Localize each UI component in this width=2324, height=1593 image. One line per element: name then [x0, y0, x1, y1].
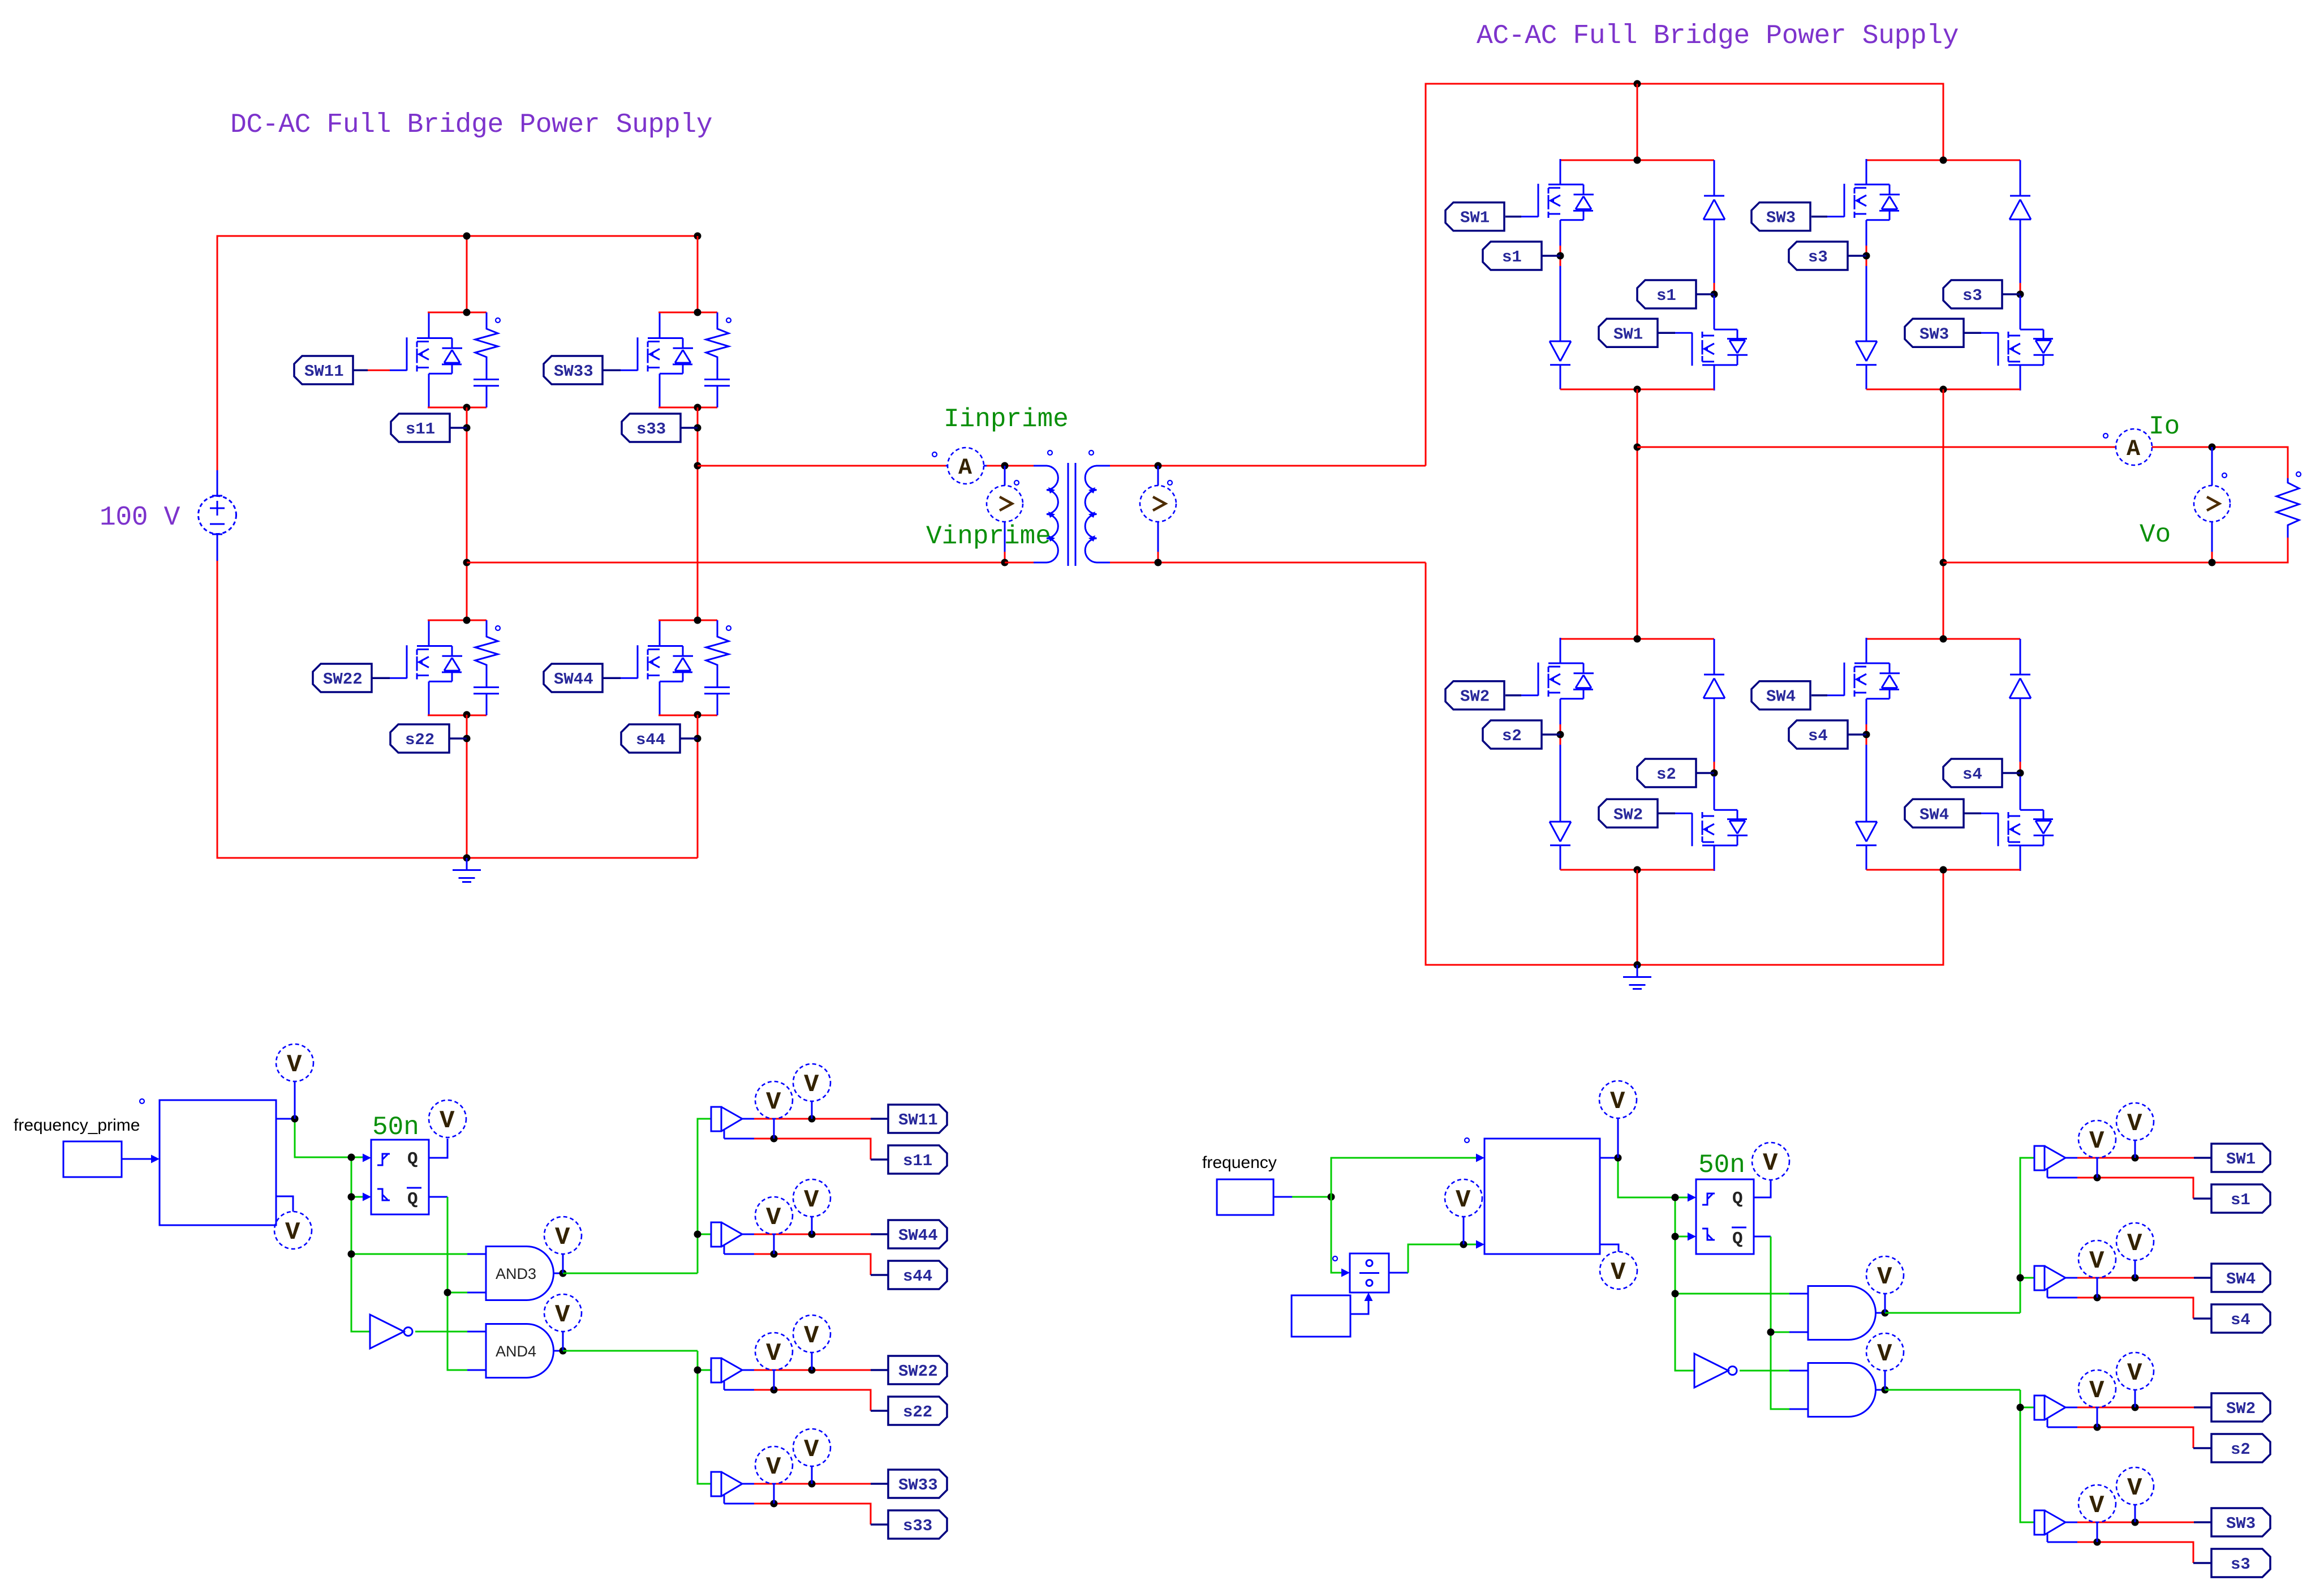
- svg-text:Q: Q: [407, 1149, 418, 1169]
- label Vinprime: [926, 522, 1051, 551]
- node Qbar and1 input: [1767, 1329, 1775, 1336]
- title AC-AC Full Bridge Power Supply: [1477, 21, 1959, 51]
- svg-text:frequency: frequency: [1202, 1153, 1277, 1172]
- wire left leg upper: [466, 236, 468, 312]
- svg-text:50n: 50n: [372, 1113, 419, 1142]
- wire cell S2 top rail: [1560, 638, 1714, 640]
- gate tag SW1 lower: [1599, 319, 1675, 347]
- voltmeter AND3: [544, 1217, 582, 1273]
- svg-text:SW2: SW2: [1460, 688, 1490, 706]
- node s4 line: [2094, 1294, 2101, 1302]
- node s22 line: [771, 1386, 778, 1394]
- svg-text:Vo: Vo: [2140, 520, 2171, 549]
- label frequency_prime: [14, 1116, 140, 1135]
- wire ff Qbar trunk prime: [429, 1197, 486, 1370]
- voltmeter ff Q: [1752, 1143, 1789, 1180]
- node s2 right junction: [1711, 770, 1718, 777]
- tag SW3 out: [2211, 1508, 2270, 1536]
- svg-text:Vinprime: Vinprime: [926, 522, 1051, 551]
- wire AND4 output to drivers: [563, 1351, 711, 1484]
- node A1 output: [1882, 1309, 1889, 1317]
- diode S4 left branch: [1856, 822, 1877, 870]
- node SW11 drain: [463, 309, 471, 316]
- gating block SW44: [711, 1222, 888, 1275]
- voltmeter generator top prime: [276, 1044, 313, 1119]
- node bottom bus center: [1634, 961, 1641, 969]
- tag s22: [390, 724, 467, 753]
- wire to generator input 1: [1331, 1154, 1484, 1197]
- node frequency split: [1328, 1193, 1335, 1201]
- node trunk and1 input: [1672, 1290, 1679, 1298]
- tag s22 out: [888, 1397, 947, 1425]
- node SW3 gate line: [2132, 1519, 2139, 1526]
- node mid rail left leg: [1634, 444, 1641, 451]
- label Vo: [2140, 520, 2171, 549]
- gate tag SW3 upper: [1751, 203, 1827, 231]
- node right leg load return: [1940, 559, 1947, 566]
- node s33 junction: [694, 424, 701, 432]
- snubber RC SW11: [428, 312, 500, 407]
- label 50n prime: [372, 1113, 419, 1142]
- triangle generator block: [1484, 1139, 1600, 1254]
- wire S4 left branch: [1866, 724, 1867, 822]
- node right leg / upper rail: [694, 462, 701, 470]
- wire S2 left branch: [1560, 724, 1561, 822]
- wire S3 right branch: [2020, 283, 2021, 302]
- node SW22 drain: [463, 617, 471, 624]
- node divider output probe: [1460, 1241, 1467, 1248]
- voltmeter SW4: [2116, 1223, 2154, 1278]
- diode S4 right branch: [2009, 639, 2031, 762]
- wire S3 left branch: [1866, 246, 1867, 341]
- ammeter Io: [2116, 429, 2152, 465]
- tag SW33 out: [888, 1470, 947, 1498]
- gate tag SW4 upper: [1751, 681, 1827, 710]
- mosfet SW2 lower: [1675, 776, 1748, 871]
- gate tag SW22: [313, 664, 390, 692]
- wire generator bottom output: [1600, 1244, 1619, 1252]
- node SW33 gate line: [808, 1480, 816, 1488]
- svg-text:SW44: SW44: [898, 1226, 938, 1245]
- transformer secondary winding: [1085, 466, 1110, 563]
- node SW44 drain: [694, 617, 701, 624]
- svg-text:s44: s44: [903, 1267, 932, 1286]
- node Qbar and3 input: [444, 1289, 451, 1296]
- node s11 line: [771, 1135, 778, 1143]
- voltmeter SW33: [793, 1429, 830, 1484]
- svg-text:Q: Q: [407, 1190, 418, 1209]
- gating block SW4: [2034, 1266, 2211, 1319]
- wire cell S2 bottom rail: [1560, 869, 1714, 871]
- wire ammeter to primary: [987, 465, 1034, 467]
- wire to divider input: [1331, 1197, 1350, 1277]
- node s1 left junction: [1557, 252, 1564, 260]
- node s11 junction: [463, 424, 471, 432]
- wire lower rail to transformer: [467, 562, 1005, 564]
- node primary top: [1001, 462, 1009, 470]
- source block frequency_prime: [63, 1141, 122, 1177]
- polarity marker generator prime: [140, 1099, 144, 1103]
- polarity marker ammeter: [932, 452, 937, 457]
- wire S2 bottom to bottom bus: [1637, 870, 1638, 965]
- wire S1 bottom to mid rail: [1637, 389, 1638, 639]
- gate tag SW1 upper: [1445, 203, 1521, 231]
- flip-flop prime: [371, 1140, 429, 1214]
- node SW4 gate line: [2132, 1274, 2139, 1282]
- wire cell S3 top rail: [1866, 160, 2020, 161]
- svg-text:s1: s1: [2231, 1191, 2250, 1209]
- wire frequency_prime to generator: [122, 1155, 160, 1163]
- wire Io to load: [2152, 447, 2288, 478]
- node primary bottom: [1001, 559, 1009, 566]
- tag s2 out: [2211, 1434, 2270, 1462]
- gating block SW1: [2034, 1146, 2211, 1199]
- mosfet SW11: [390, 313, 462, 408]
- node s3 left junction: [1863, 252, 1870, 260]
- constant block divider input: [1292, 1293, 1373, 1337]
- node SW1 gate line: [2132, 1154, 2139, 1162]
- svg-text:s44: s44: [636, 731, 665, 749]
- mosfet SW1 upper: [1521, 159, 1594, 254]
- voltmeter SW22: [793, 1315, 830, 1370]
- node left leg / lower rail: [463, 559, 471, 566]
- voltmeter generator bottom: [1600, 1252, 1637, 1289]
- tag s33: [622, 414, 698, 442]
- wire S1 right branch: [1714, 283, 1715, 302]
- and gate AND4: [486, 1324, 563, 1378]
- polarity marker primary winding: [1048, 450, 1052, 455]
- gate tag SW4 lower: [1905, 799, 1981, 827]
- tag s44: [621, 724, 698, 753]
- dc source VDC 100V: [199, 470, 236, 561]
- ground left bridge: [453, 858, 481, 882]
- svg-text:SW1: SW1: [1460, 209, 1490, 227]
- wire right leg bottom: [697, 715, 699, 858]
- node cell S1 bottom: [1634, 386, 1641, 393]
- wire upper rail to transformer: [698, 465, 946, 467]
- node s2 left junction: [1557, 731, 1564, 738]
- svg-text:50n: 50n: [1698, 1150, 1745, 1180]
- svg-text:SW4: SW4: [1766, 688, 1796, 706]
- wire ac-ac left bus and top bus: [1426, 84, 1943, 466]
- node s3 right junction: [2017, 291, 2024, 298]
- wire cell S1 bottom rail: [1560, 389, 1714, 390]
- node Vo bottom: [2209, 559, 2216, 566]
- svg-text:Io: Io: [2149, 412, 2180, 441]
- tag s4 out: [2211, 1304, 2270, 1333]
- polarity marker Vo: [2222, 473, 2227, 478]
- tag SW1 out: [2211, 1144, 2270, 1172]
- wire carrier trunk: [1675, 1197, 1808, 1371]
- tag s11: [391, 414, 467, 442]
- wire frequency output: [1273, 1196, 1331, 1198]
- svg-text:s11: s11: [406, 420, 435, 439]
- wire S1 left branch: [1560, 246, 1561, 341]
- voltmeter s11: [755, 1081, 793, 1139]
- svg-text:SW33: SW33: [898, 1476, 938, 1495]
- tag s3 left: [1789, 242, 1866, 270]
- node s1 right junction: [1711, 291, 1718, 298]
- node bottom bus / left leg: [463, 855, 471, 862]
- mosfet SW4 upper: [1827, 638, 1900, 733]
- transformer core: [1068, 463, 1075, 566]
- svg-text:SW3: SW3: [1766, 209, 1796, 227]
- node SW22 gate line: [808, 1367, 816, 1374]
- snubber RC SW22: [428, 620, 500, 715]
- svg-text:s11: s11: [903, 1152, 932, 1170]
- svg-text:SW33: SW33: [554, 362, 593, 381]
- node s4 right junction: [2017, 770, 2024, 777]
- voltmeter s44: [755, 1197, 793, 1254]
- tag SW44 out: [888, 1220, 947, 1248]
- wire left leg middle: [466, 407, 468, 620]
- label frequency: [1202, 1153, 1277, 1172]
- wire A1 output to drivers: [1885, 1158, 2034, 1313]
- tag s33 out: [888, 1510, 947, 1539]
- tag s4 left: [1789, 720, 1866, 749]
- node secondary bottom: [1155, 559, 1162, 566]
- wire mid rail to Io ammeter: [1637, 446, 2116, 448]
- wire right leg middle: [697, 407, 699, 620]
- voltmeter ff Q prime: [429, 1100, 466, 1137]
- wire top bus to cell S1: [1637, 84, 1638, 160]
- wire ff Q to probe prime: [429, 1139, 447, 1158]
- voltmeter secondary: [1140, 466, 1176, 563]
- wire S3 bottom to cell S4: [1943, 389, 1944, 639]
- wire S4 right branch: [2020, 762, 2021, 780]
- node SW2 gate line: [2132, 1404, 2139, 1411]
- svg-text:s4: s4: [2231, 1311, 2250, 1329]
- tag s1 right: [1637, 280, 1714, 308]
- tag s3 out: [2211, 1549, 2270, 1577]
- node trunk ff input2: [348, 1193, 355, 1201]
- tag s11 out: [888, 1145, 947, 1174]
- node cell S1 top: [1634, 157, 1641, 164]
- node SW33 drain: [694, 309, 701, 316]
- voltmeter generator top: [1599, 1081, 1637, 1158]
- node s33 line: [771, 1500, 778, 1508]
- mosfet SW22: [390, 621, 462, 716]
- node SW22 source: [463, 711, 471, 719]
- wire carrier trunk prime: [351, 1157, 486, 1332]
- svg-text:SW1: SW1: [2226, 1150, 2256, 1169]
- svg-text:s4: s4: [1963, 765, 1982, 784]
- node SW44 gate line: [808, 1231, 816, 1238]
- node AND4 output: [560, 1347, 567, 1355]
- svg-text:SW3: SW3: [2226, 1514, 2256, 1533]
- gate tag SW3 lower: [1905, 319, 1981, 347]
- svg-text:Q: Q: [1732, 1229, 1743, 1249]
- wire cell S4 bottom rail: [1866, 869, 2020, 871]
- transformer primary winding: [1005, 466, 1058, 563]
- wire S2 right branch: [1714, 762, 1715, 780]
- triangle generator block prime: [160, 1100, 276, 1225]
- gating block SW2: [2034, 1396, 2211, 1448]
- svg-text:SW44: SW44: [554, 670, 593, 689]
- svg-text:Q: Q: [1732, 1189, 1743, 1209]
- svg-text:s3: s3: [1963, 286, 1982, 305]
- svg-text:s1: s1: [1502, 248, 1522, 267]
- node driver trunk SW22: [694, 1367, 701, 1374]
- node A2 output: [1882, 1386, 1889, 1394]
- tag s4 right: [1943, 759, 2020, 787]
- gating block SW3: [2034, 1510, 2211, 1563]
- polarity marker divider: [1333, 1256, 1337, 1261]
- voltmeter A2: [1866, 1333, 1904, 1390]
- svg-text:s3: s3: [2231, 1555, 2250, 1574]
- svg-text:SW22: SW22: [323, 670, 363, 689]
- voltmeter Vo: [2194, 447, 2230, 563]
- voltmeter s22: [755, 1333, 793, 1390]
- tag SW2 out: [2211, 1393, 2270, 1422]
- svg-text:SW11: SW11: [898, 1111, 938, 1130]
- wire left leg bottom: [466, 715, 468, 858]
- gate tag SW44: [544, 664, 621, 692]
- gate tag SW33: [544, 356, 621, 384]
- wire top bus left bridge: [217, 236, 698, 858]
- and gate A2: [1808, 1363, 1885, 1417]
- voltmeter SW11: [793, 1064, 830, 1119]
- node cell S3 bottom: [1940, 386, 1947, 393]
- tag s2 right: [1637, 759, 1714, 787]
- mosfet SW2 upper: [1521, 638, 1594, 733]
- tag s1 out: [2211, 1184, 2270, 1213]
- voltmeter s3: [2078, 1485, 2116, 1542]
- svg-text:s2: s2: [1656, 765, 1676, 784]
- voltmeter Vinprime: [987, 466, 1023, 563]
- node cell S3 top: [1940, 157, 1947, 164]
- gating block SW22: [711, 1358, 888, 1411]
- svg-text:s4: s4: [1808, 727, 1828, 745]
- voltmeter SW3: [2116, 1467, 2154, 1522]
- svg-text:SW11: SW11: [304, 362, 344, 381]
- svg-text:s3: s3: [1808, 248, 1828, 267]
- node secondary top: [1155, 462, 1162, 470]
- gate tag SW2 lower: [1599, 799, 1675, 827]
- gating block SW11: [711, 1107, 888, 1160]
- node driver trunk SW2: [2017, 1404, 2024, 1411]
- svg-text:frequency_prime: frequency_prime: [14, 1116, 140, 1135]
- svg-text:100 V: 100 V: [100, 503, 180, 533]
- wire generator top output: [1600, 1158, 1688, 1197]
- svg-text:DC-AC Full Bridge Power Supply: DC-AC Full Bridge Power Supply: [230, 110, 712, 140]
- voltmeter SW1: [2116, 1103, 2154, 1158]
- node cell S2 top: [1634, 636, 1641, 643]
- mosfet SW3 upper: [1827, 159, 1900, 254]
- node trunk ff input2: [1672, 1233, 1679, 1240]
- node s22 junction: [463, 735, 471, 742]
- node trunk ff input1: [1672, 1194, 1679, 1201]
- diode S2 right branch: [1703, 639, 1725, 762]
- wire cell S1 top rail: [1560, 160, 1714, 161]
- voltmeter A1: [1866, 1256, 1904, 1313]
- node cell S2 bottom: [1634, 866, 1641, 874]
- diode S3 left branch: [1856, 341, 1877, 389]
- source block frequency: [1217, 1179, 1273, 1215]
- wire right leg upper: [697, 236, 699, 312]
- svg-text:SW4: SW4: [1920, 805, 1949, 824]
- label 50n: [1698, 1150, 1745, 1180]
- label 100 V: [100, 503, 180, 533]
- tag s1 left: [1483, 242, 1560, 270]
- node SW33 source: [694, 404, 701, 411]
- gate tag SW2 upper: [1445, 681, 1521, 710]
- voltmeter generator bottom prime: [274, 1212, 312, 1249]
- voltmeter s4: [2078, 1240, 2116, 1298]
- svg-text:s22: s22: [405, 731, 434, 749]
- svg-text:SW4: SW4: [2226, 1270, 2256, 1289]
- tag s3 right: [1943, 280, 2020, 308]
- polarity marker generator: [1465, 1138, 1469, 1143]
- diode S3 right branch: [2009, 160, 2031, 283]
- inverter prime: [370, 1315, 486, 1349]
- inverter: [1694, 1354, 1808, 1388]
- node top bus / left leg: [463, 233, 471, 240]
- node SW11 gate line: [808, 1115, 816, 1123]
- polarity marker Io: [2103, 433, 2108, 438]
- flip-flop: [1696, 1179, 1754, 1254]
- polarity marker voltmeter primary: [1014, 480, 1019, 485]
- svg-text:s2: s2: [2231, 1440, 2250, 1459]
- node trunk ff input1: [348, 1154, 355, 1161]
- node s1 line: [2094, 1174, 2101, 1182]
- and gate A1: [1808, 1286, 1885, 1340]
- tag SW4 out: [2211, 1264, 2270, 1292]
- voltmeter s2: [2078, 1370, 2116, 1427]
- node Vo top: [2209, 444, 2216, 451]
- svg-text:AND4: AND4: [496, 1343, 536, 1360]
- svg-text:SW1: SW1: [1613, 325, 1643, 343]
- node SW44 source: [694, 711, 701, 719]
- svg-text:s2: s2: [1502, 727, 1522, 745]
- gating block SW33: [711, 1472, 888, 1525]
- svg-text:SW2: SW2: [2226, 1399, 2256, 1418]
- gate tag SW11: [294, 356, 390, 384]
- voltmeter AND4: [544, 1294, 582, 1351]
- wire cell S4 top rail: [1866, 638, 2020, 640]
- divider block: [1350, 1253, 1389, 1293]
- svg-text:s33: s33: [636, 420, 666, 439]
- node s44 line: [771, 1251, 778, 1258]
- node s44 junction: [694, 735, 701, 742]
- wire secondary top lead: [1110, 466, 1426, 563]
- snubber RC SW33: [659, 312, 731, 407]
- node s4 left junction: [1863, 731, 1870, 738]
- tag s2 left: [1483, 720, 1560, 749]
- tag SW22 out: [888, 1356, 947, 1384]
- node cell S4 top: [1940, 636, 1947, 643]
- diode S1 left branch: [1550, 341, 1571, 389]
- wire load return: [1943, 538, 2288, 563]
- polarity marker secondary winding: [1089, 450, 1094, 455]
- wire AND3 output to drivers: [563, 1119, 711, 1273]
- mosfet SW3 lower: [1981, 296, 2054, 391]
- wire cell S3 bottom rail: [1866, 389, 2020, 390]
- label Io: [2149, 412, 2180, 441]
- resistor load: [2276, 478, 2299, 538]
- svg-text:s22: s22: [903, 1403, 932, 1422]
- tag s44 out: [888, 1261, 947, 1289]
- title DC-AC Full Bridge Power Supply: [230, 110, 712, 140]
- tag SW11 out: [888, 1105, 947, 1133]
- node generator top output: [291, 1115, 299, 1123]
- wire generator top output: [276, 1119, 363, 1157]
- node top bus / right leg: [694, 233, 701, 240]
- svg-text:SW3: SW3: [1920, 325, 1949, 343]
- node top bus center: [1634, 80, 1641, 88]
- wire ff Q to probe: [1754, 1180, 1771, 1197]
- node driver trunk SW44: [694, 1231, 701, 1238]
